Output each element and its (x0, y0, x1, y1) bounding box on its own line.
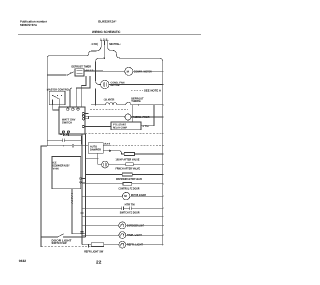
svg-text:M: M (124, 194, 127, 198)
timer switch contact (67, 74, 68, 75)
valve 2 label (116, 167, 141, 171)
left bus jog at y=146 (41, 146, 47, 247)
bottom pins (62, 131, 64, 133)
label L1 HOT (91, 42, 98, 46)
coil heater label (104, 98, 115, 101)
compressor label (134, 69, 152, 73)
mold heater vertical from box bottom (72, 189, 86, 234)
defrost heater rung with zigzag (91, 104, 105, 106)
wire label A#4 (104, 142, 111, 145)
svg-text:NEUTRAL ›: NEUTRAL › (109, 42, 121, 46)
svg-text:SWITCH: SWITCH (62, 120, 72, 124)
condenser fan label (111, 82, 125, 88)
svg-text:1/8 HP AFTER VALVE: 1/8 HP AFTER VALVE (116, 157, 140, 161)
header publication text (20, 20, 121, 35)
svg-text:CONTROL FZ DOOR: CONTROL FZ DOOR (119, 187, 141, 191)
connector pins at top (100, 41, 108, 45)
evaporator fan motor circle (102, 161, 109, 168)
auto damper upper output (dashed to bus) (103, 145, 109, 147)
thermal protector circle (125, 114, 131, 120)
see note a (131, 90, 143, 92)
compressor rung (95, 70, 96, 71)
svg-text:DEFROST TIMER: DEFROST TIMER (72, 64, 92, 68)
icemaker box left (52, 157, 81, 189)
svg-text:5995CST97A: 5995CST97A (20, 23, 38, 27)
defrost thermostat (121, 104, 126, 106)
master control box (49, 91, 65, 104)
defrost timer label (72, 64, 92, 68)
lamp 1 dispenser light (82, 224, 119, 226)
neutral wire: curve right, rail to right bus (108, 45, 163, 246)
defrost therm label (131, 97, 144, 103)
valve 2 box (126, 163, 134, 166)
svg-text:SWITCH FZ DOOR: SWITCH FZ DOOR (120, 210, 140, 214)
lamp 3 refr light (82, 244, 91, 246)
condenser fan motor circle (101, 80, 109, 88)
svg-text:SEE NOTE A: SEE NOTE A (144, 89, 162, 93)
wire damper box down to evap fan (97, 153, 99, 164)
right pins (82, 112, 84, 114)
middle pin wire down to junction (103, 45, 105, 58)
wires from control box down (53, 105, 59, 110)
wire relay box to defrost rung (141, 105, 154, 126)
svg-text:COIL HEATER: COIL HEATER (104, 98, 115, 101)
timer contact value (85, 69, 94, 72)
valve 1 label (116, 157, 140, 161)
evap fan motor (98, 163, 102, 165)
svg-text:SWITCH SW: SWITCH SW (52, 241, 67, 245)
thermal protector rung from control box pin (85, 115, 125, 118)
relay side label (143, 125, 149, 128)
wire pins rung down to damper rung (81, 136, 83, 145)
wires down into control box top (69, 90, 71, 108)
auto damper lower output with diode, jog down to valve rung (103, 150, 109, 152)
valve 4 rung (82, 183, 123, 185)
auto damper box (88, 143, 103, 154)
master control label (47, 88, 70, 92)
svg-text:A#4: A#4 (104, 142, 111, 145)
svg-text:THERM.: THERM. (131, 100, 141, 103)
wire valve 1 to right bus (135, 153, 163, 155)
svg-text:‹1 HO): ‹1 HO) (91, 42, 98, 46)
wire control box pin to relay box (85, 126, 112, 128)
svg-text:GLRS267ZA*: GLRS267ZA* (98, 20, 117, 24)
heater pins rung (125, 203, 135, 207)
wire from left bus to timer contact (47, 74, 66, 76)
svg-text:22: 22 (96, 260, 102, 265)
condenser fan rung (96, 71, 101, 85)
svg-text:DAMPER: DAMPER (90, 148, 101, 151)
watt saver control box (59, 107, 85, 134)
inside label (62, 117, 75, 124)
compressor motor circle (125, 67, 133, 75)
wire thermostat to relay box (132, 105, 134, 122)
thermal protector label (132, 116, 150, 119)
relay box under (111, 122, 141, 130)
door switch bottom left (41, 236, 57, 238)
header rule (18, 33, 201, 35)
dashed rung to right bus (82, 133, 163, 135)
svg-text:RELAY COMP: RELAY COMP (113, 126, 127, 129)
hot wire: pin1 down, curve left, rail to left bus corner (47, 45, 101, 146)
timer outputs going down/right (84, 70, 96, 72)
svg-text:THERM. PROT.: THERM. PROT. (132, 116, 150, 119)
rung with connector to feeder (47, 139, 63, 141)
stub from junction to left feeding motors vertical (96, 58, 105, 71)
top pin number labels (100, 38, 108, 41)
svg-text:DISPENSER AFTER VALVE: DISPENSER AFTER VALVE (116, 177, 142, 181)
left feeder verticals (81, 134, 83, 245)
valve 3 label (116, 177, 142, 181)
rung through auto damper (41, 145, 72, 147)
connector breaks on feeder vertical (81, 211, 84, 213)
defrost timer box (75, 69, 84, 76)
wire circle to right bus (133, 70, 163, 72)
pin number labels 5 1 2 (60, 133, 69, 136)
valve 1 box (124, 153, 134, 156)
svg-text:M: M (127, 69, 130, 73)
svg-text:REFR LIGHT SW: REFR LIGHT SW (84, 249, 103, 253)
top pins (67, 108, 69, 110)
svg-text:WIRING SCHEMATIC: WIRING SCHEMATIC (92, 30, 121, 34)
svg-text:FRNCH AFTER VALVE: FRNCH AFTER VALVE (116, 167, 141, 171)
valve 4 label (119, 187, 141, 191)
switch inside (52, 95, 53, 96)
footer number left (19, 259, 26, 263)
svg-text:0632: 0632 (19, 259, 26, 263)
svg-text:V#4K: V#4K (53, 168, 59, 171)
switch fz door rung (82, 215, 163, 217)
lamp 2 freezer light (82, 234, 119, 236)
svg-text:MASTER CONTROL: MASTER CONTROL (47, 88, 70, 92)
dashed rung mid (64, 133, 82, 136)
dashed wire from control box (90, 109, 128, 111)
svg-text:HTR TM: HTR TM (125, 203, 135, 207)
valve 3 rung (86, 174, 123, 176)
auger motor (82, 195, 122, 197)
dashed bottom rung (41, 246, 92, 248)
footer page number (96, 260, 102, 265)
label NEUTRAL (109, 42, 121, 46)
